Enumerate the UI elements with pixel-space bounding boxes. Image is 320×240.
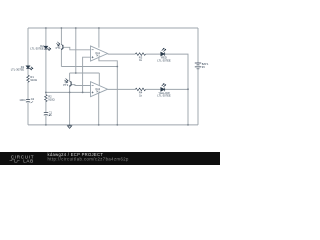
labels [11, 44, 209, 118]
wire output row 1 [108, 54, 188, 125]
LED D4 [161, 84, 166, 92]
CircuitLab logo [10, 155, 35, 164]
wire branch x=45.9 (D2/R2/C1 column) [45, 28, 47, 125]
ground [68, 125, 72, 128]
wire Q1 jog to OA1 non-inverting input [63, 47, 91, 50]
resistor R3 [135, 53, 145, 56]
footer bar [0, 152, 220, 165]
resistor R2 [45, 95, 48, 102]
wire OA1 V+ from top rail [98, 28, 100, 48]
wire OA2 V- to ground rail [98, 93, 100, 125]
capacitor C1 [44, 113, 51, 116]
wire branch x=61.4 (Q1 column) [60, 28, 62, 67]
wire OA2 V+ drop [98, 73, 100, 85]
wire OA1 inverting input drop x=82.6 [83, 57, 91, 92]
LED D3 [161, 48, 166, 56]
svg-text:LAB: LAB [23, 159, 33, 164]
wire top rail [28, 27, 198, 29]
resistor R4 [135, 88, 145, 91]
svg-text:741: 741 [96, 90, 101, 93]
battery BAT1 [195, 63, 201, 69]
op-amp OA1 [91, 46, 108, 61]
wire output row 2 [108, 88, 188, 90]
phototransistor Q2 [65, 79, 72, 87]
wire Q2 jog to OA2 non-inverting input [71, 84, 90, 87]
wire right rail segments [197, 28, 199, 125]
wire left rail segments [27, 28, 29, 125]
op-amp OA2 [91, 82, 108, 97]
wire branch x=75.8 (power drop) [75, 28, 77, 73]
LED D1 [26, 66, 33, 70]
svg-text:741: 741 [96, 55, 101, 58]
LED D2 [44, 46, 51, 50]
wire Q2 collector/emitter column [69, 73, 71, 125]
phototransistor Q1 [56, 42, 63, 50]
wire line D (reference node to OA2 inverting input) [46, 91, 91, 93]
wire node line B (Q1 emitter to OA1 V- drop) [61, 66, 117, 68]
wire bottom rail [28, 124, 198, 126]
svg-text:http://circuitlab.com/c2z7ba4z: http://circuitlab.com/c2z7ba4zm62p [48, 156, 130, 161]
node dots [45, 27, 189, 126]
wire line C (power to Q2 collector and OA2 V+) [70, 72, 100, 74]
wire OA1 V- to ground rail [99, 58, 117, 125]
capacitor C2 [26, 100, 33, 103]
resistor R1 [27, 75, 30, 83]
